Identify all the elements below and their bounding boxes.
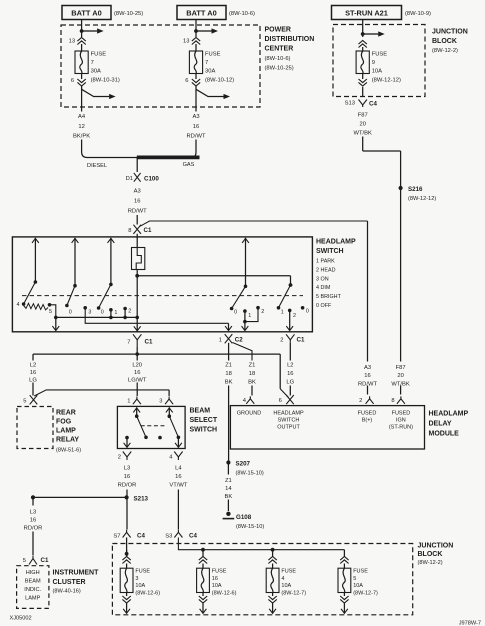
svg-text:VT/WT: VT/WT: [169, 483, 187, 489]
svg-text:16: 16: [193, 124, 199, 130]
svg-text:XJ05002: XJ05002: [10, 616, 32, 622]
svg-text:RD/WT: RD/WT: [187, 134, 206, 140]
svg-text:JUNCTION: JUNCTION: [418, 543, 454, 550]
svg-text:FUSE: FUSE: [281, 569, 296, 575]
svg-text:BK: BK: [225, 494, 233, 500]
svg-text:6: 6: [279, 398, 282, 404]
svg-text:16: 16: [134, 199, 140, 205]
svg-text:G108: G108: [236, 514, 252, 521]
svg-text:0: 0: [234, 310, 237, 316]
svg-text:S3: S3: [165, 533, 172, 539]
svg-text:BEAM: BEAM: [190, 408, 211, 415]
svg-text:BK/PK: BK/PK: [73, 134, 90, 140]
svg-text:Z1: Z1: [225, 478, 232, 484]
svg-text:HEADLAMP: HEADLAMP: [316, 239, 356, 246]
svg-text:FUSE: FUSE: [205, 52, 221, 58]
svg-text:POWER: POWER: [265, 27, 291, 34]
svg-text:F87: F87: [396, 365, 406, 371]
svg-text:(8W-10-25): (8W-10-25): [265, 66, 294, 72]
svg-text:4: 4: [281, 576, 284, 582]
svg-text:(8W-12-2): (8W-12-2): [432, 48, 458, 54]
svg-text:SWITCH: SWITCH: [278, 417, 300, 423]
svg-text:B(+): B(+): [362, 417, 373, 423]
svg-text:2: 2: [118, 455, 121, 461]
svg-text:(8W-10-25): (8W-10-25): [114, 11, 143, 17]
svg-text:HIGH: HIGH: [26, 570, 40, 576]
svg-text:SWITCH: SWITCH: [190, 427, 218, 434]
svg-text:13: 13: [69, 39, 75, 45]
svg-text:BATT A0: BATT A0: [186, 8, 216, 17]
svg-text:L2: L2: [30, 363, 36, 369]
svg-text:FUSED: FUSED: [358, 410, 377, 416]
svg-text:L3: L3: [124, 466, 130, 472]
svg-text:9: 9: [372, 60, 375, 66]
svg-text:CENTER: CENTER: [265, 46, 294, 53]
svg-text:(8W-10-6): (8W-10-6): [229, 11, 255, 17]
svg-text:FUSED: FUSED: [392, 410, 411, 416]
svg-text:(8W-12-12): (8W-12-12): [408, 196, 436, 202]
svg-text:(8W-15-10): (8W-15-10): [236, 470, 264, 476]
svg-text:(8W-10-12): (8W-10-12): [205, 77, 234, 83]
svg-text:S7: S7: [113, 533, 120, 539]
svg-text:3 ON: 3 ON: [316, 276, 329, 282]
svg-text:BK: BK: [225, 380, 233, 386]
svg-text:16: 16: [30, 518, 36, 524]
svg-text:3: 3: [88, 310, 91, 316]
svg-text:FUSE: FUSE: [353, 569, 368, 575]
svg-text:(8W-10-31): (8W-10-31): [91, 77, 120, 83]
svg-text:DELAY: DELAY: [429, 421, 452, 428]
svg-text:INSTRUMENT: INSTRUMENT: [53, 570, 100, 577]
svg-text:(8W-12-12): (8W-12-12): [372, 77, 401, 83]
svg-text:Z1: Z1: [249, 363, 256, 369]
svg-text:RD/OR: RD/OR: [24, 526, 43, 532]
svg-text:1: 1: [248, 313, 251, 319]
svg-text:4 DIM: 4 DIM: [316, 285, 331, 291]
svg-text:5: 5: [353, 576, 356, 582]
svg-text:FUSE: FUSE: [91, 52, 107, 58]
svg-text:RELAY: RELAY: [56, 437, 79, 444]
svg-text:10A: 10A: [353, 583, 363, 589]
svg-text:DISTRIBUTION: DISTRIBUTION: [265, 36, 315, 43]
svg-text:1: 1: [281, 310, 284, 316]
svg-text:DIESEL: DIESEL: [87, 163, 107, 169]
svg-text:F87: F87: [358, 113, 368, 119]
svg-text:5: 5: [23, 558, 26, 564]
svg-text:10A: 10A: [281, 583, 291, 589]
svg-text:C2: C2: [235, 336, 243, 343]
svg-text:A3: A3: [364, 365, 371, 371]
svg-text:0: 0: [306, 309, 309, 315]
svg-text:(ST-RUN): (ST-RUN): [389, 424, 413, 430]
svg-text:16: 16: [124, 474, 130, 480]
svg-text:(8W-12-6): (8W-12-6): [135, 590, 160, 596]
svg-text:C1: C1: [41, 557, 49, 564]
svg-text:LG: LG: [286, 380, 294, 386]
svg-text:C1: C1: [144, 227, 152, 234]
svg-text:GROUND: GROUND: [237, 410, 261, 416]
svg-text:(8W-10-9): (8W-10-9): [405, 11, 431, 17]
svg-text:FUSE: FUSE: [212, 569, 227, 575]
svg-text:13: 13: [183, 39, 189, 45]
svg-text:(8W-51-6): (8W-51-6): [56, 448, 81, 454]
svg-text:S213: S213: [134, 495, 149, 502]
svg-text:WT/BK: WT/BK: [354, 131, 372, 137]
svg-text:6: 6: [71, 78, 74, 84]
svg-text:C4: C4: [369, 101, 377, 108]
svg-text:OUTPUT: OUTPUT: [277, 424, 300, 430]
svg-text:16: 16: [175, 474, 181, 480]
svg-text:L4: L4: [175, 466, 182, 472]
svg-text:CLUSTER: CLUSTER: [53, 579, 86, 586]
svg-text:16: 16: [30, 370, 36, 376]
svg-text:A3: A3: [134, 189, 141, 195]
svg-text:HEADLAMP: HEADLAMP: [429, 411, 469, 418]
svg-text:1: 1: [114, 310, 117, 316]
svg-text:C1: C1: [297, 336, 305, 343]
svg-text:A4: A4: [78, 114, 86, 120]
svg-text:JUNCTION: JUNCTION: [432, 29, 468, 36]
svg-text:(8W-12-7): (8W-12-7): [353, 590, 378, 596]
svg-text:0: 0: [69, 310, 72, 316]
svg-text:7: 7: [127, 340, 130, 346]
svg-text:ST-RUN A21: ST-RUN A21: [345, 8, 388, 17]
svg-text:BLOCK: BLOCK: [432, 38, 457, 45]
svg-text:LAMP: LAMP: [25, 595, 41, 601]
svg-text:BATT A0: BATT A0: [71, 8, 101, 17]
svg-text:5: 5: [23, 399, 26, 405]
svg-text:GAS: GAS: [183, 162, 195, 168]
svg-text:MODULE: MODULE: [429, 431, 460, 438]
svg-text:10A: 10A: [372, 69, 382, 75]
svg-text:HEADLAMP: HEADLAMP: [273, 410, 304, 416]
svg-text:REAR: REAR: [56, 410, 76, 417]
svg-text:10A: 10A: [135, 583, 145, 589]
svg-text:SWITCH: SWITCH: [316, 248, 344, 255]
svg-text:Z1: Z1: [225, 363, 232, 369]
svg-text:RD/WT: RD/WT: [128, 209, 147, 215]
svg-text:8: 8: [391, 398, 394, 404]
svg-text:7: 7: [205, 60, 208, 66]
svg-text:1: 1: [127, 399, 130, 405]
svg-text:16: 16: [212, 576, 218, 582]
svg-text:1: 1: [219, 338, 222, 344]
svg-text:6: 6: [185, 78, 188, 84]
svg-text:20: 20: [359, 122, 365, 128]
svg-text:BEAM: BEAM: [25, 578, 41, 584]
svg-text:5 BRIGHT: 5 BRIGHT: [316, 294, 342, 300]
svg-text:14: 14: [225, 486, 232, 492]
svg-text:(8W-15-10): (8W-15-10): [236, 524, 264, 530]
svg-text:C1: C1: [145, 338, 153, 345]
svg-text:A3: A3: [192, 114, 199, 120]
svg-text:16: 16: [134, 370, 140, 376]
svg-text:(8W-12-2): (8W-12-2): [418, 560, 443, 566]
svg-text:L3: L3: [30, 510, 36, 516]
svg-text:30A: 30A: [91, 69, 101, 75]
svg-text:LAMP: LAMP: [56, 428, 76, 435]
svg-text:0 OFF: 0 OFF: [316, 303, 332, 309]
svg-text:L2: L2: [287, 363, 293, 369]
svg-text:2: 2: [128, 309, 131, 315]
svg-text:RD/OR: RD/OR: [118, 483, 137, 489]
svg-text:C100: C100: [144, 176, 159, 183]
svg-text:8: 8: [128, 228, 131, 234]
svg-text:4: 4: [17, 302, 20, 308]
svg-text:BK: BK: [248, 380, 256, 386]
svg-text:S207: S207: [236, 460, 251, 467]
svg-text:16: 16: [287, 371, 293, 377]
svg-text:(8W-12-7): (8W-12-7): [281, 590, 306, 596]
svg-text:12: 12: [78, 124, 84, 130]
svg-text:S216: S216: [408, 186, 423, 193]
svg-text:10A: 10A: [212, 583, 222, 589]
svg-text:2: 2: [280, 338, 283, 344]
svg-text:BLOCK: BLOCK: [418, 551, 443, 558]
svg-text:IGN: IGN: [396, 417, 406, 423]
svg-text:L20: L20: [132, 363, 142, 369]
svg-text:16: 16: [364, 373, 370, 379]
svg-text:3: 3: [135, 576, 138, 582]
svg-text:3: 3: [159, 399, 162, 405]
svg-text:18: 18: [249, 371, 255, 377]
svg-text:7: 7: [91, 60, 94, 66]
svg-text:18: 18: [225, 371, 231, 377]
svg-text:D1: D1: [126, 176, 133, 182]
svg-text:0: 0: [101, 310, 104, 316]
svg-text:30A: 30A: [205, 69, 215, 75]
svg-text:2 HEAD: 2 HEAD: [316, 267, 336, 273]
svg-text:(8W-40-16): (8W-40-16): [53, 589, 81, 595]
svg-text:C4: C4: [189, 532, 197, 539]
svg-text:S13: S13: [345, 101, 355, 107]
svg-text:20: 20: [397, 373, 403, 379]
svg-text:2: 2: [359, 398, 362, 404]
svg-text:INDIC.: INDIC.: [24, 587, 41, 593]
svg-text:(8W-12-6): (8W-12-6): [212, 590, 237, 596]
svg-text:SELECT: SELECT: [190, 417, 218, 424]
svg-text:C4: C4: [137, 532, 145, 539]
svg-text:2: 2: [293, 313, 296, 319]
svg-text:5: 5: [49, 309, 52, 315]
svg-text:FOG: FOG: [56, 419, 72, 426]
svg-text:FUSE: FUSE: [135, 569, 150, 575]
svg-text:FUSE: FUSE: [372, 52, 388, 58]
svg-text:2: 2: [261, 309, 264, 315]
svg-text:J978W-7: J978W-7: [459, 621, 481, 626]
svg-text:(8W-10-6): (8W-10-6): [265, 56, 291, 62]
svg-text:1 PARK: 1 PARK: [316, 259, 335, 265]
